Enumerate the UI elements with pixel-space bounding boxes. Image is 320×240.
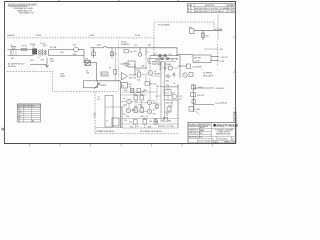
- wire to rectifier: [83, 50, 85, 63]
- svg-text:U1: U1: [129, 64, 131, 66]
- svg-text:A2: A2: [32, 120, 34, 123]
- label T2 drive: [98, 97, 101, 101]
- labels secondary extra: [124, 108, 174, 129]
- wire sense: [194, 31, 222, 40]
- svg-text:CR11: CR11: [196, 109, 200, 111]
- svg-text:ASSEMBLY A1-A3: ASSEMBLY A1-A3: [216, 133, 230, 136]
- svg-text:RV1: RV1: [11, 58, 14, 60]
- diode CR10: [191, 85, 224, 90]
- svg-text:REVISED PER ECO 2211 R4 WAS 1K: REVISED PER ECO 2211 R4 WAS 1K: [195, 10, 225, 13]
- svg-text:P/O A1: P/O A1: [30, 43, 35, 46]
- svg-text:CR8: CR8: [138, 104, 141, 106]
- label sense: [214, 29, 223, 31]
- capacitor C2: [44, 50, 46, 55]
- secondary box frame: [122, 84, 178, 128]
- svg-text:+12.6V: +12.6V: [194, 61, 200, 63]
- svg-text:C11: C11: [134, 45, 137, 47]
- svg-text:REF DESIG PART NO: REF DESIG PART NO: [18, 104, 36, 107]
- wire bus top center: [90, 45, 177, 55]
- svg-text:COM: COM: [220, 61, 225, 63]
- switch S1: [49, 47, 58, 63]
- svg-text:C34: C34: [130, 126, 133, 128]
- parts reference table: [17, 104, 40, 123]
- label P/O A1: [30, 43, 35, 46]
- revision table: [187, 3, 236, 13]
- svg-text:R52: R52: [153, 114, 156, 116]
- transformer T1 primary wires: [134, 48, 146, 56]
- zener VR2: [191, 93, 205, 97]
- resistor R54: [154, 118, 158, 124]
- svg-text:Q7: Q7: [173, 93, 175, 95]
- svg-text:SECONDARY REGULATOR: SECONDARY REGULATOR: [140, 130, 162, 133]
- relay K1 box: [83, 81, 120, 128]
- svg-text:C35: C35: [160, 121, 163, 123]
- capacitor C3: [92, 48, 96, 58]
- resistor R38: [137, 88, 145, 93]
- svg-text:C37: C37: [171, 126, 174, 128]
- svg-text:HEWLETT·PACKARD: HEWLETT·PACKARD: [216, 124, 238, 127]
- svg-text:CR16: CR16: [168, 105, 172, 107]
- svg-text:Q4: Q4: [153, 110, 155, 112]
- svg-text:25UF: 25UF: [166, 77, 170, 79]
- svg-text:C3: C3: [92, 50, 94, 52]
- svg-text:C40: C40: [166, 85, 169, 87]
- notes text block: [8, 4, 38, 14]
- wire L2 bottom bus: [8, 55, 85, 57]
- svg-text:48-440 Hz: 48-440 Hz: [8, 66, 16, 68]
- svg-text:C33: C33: [143, 118, 146, 120]
- svg-text:SCALE: SCALE: [213, 141, 219, 144]
- svg-text:R20: R20: [206, 36, 209, 38]
- resistor R23: [137, 70, 141, 77]
- svg-text:R23: R23: [137, 70, 140, 72]
- svg-text:R50: R50: [126, 116, 129, 118]
- svg-text:+5.2V SEN: +5.2V SEN: [214, 29, 223, 31]
- svg-text:P/O A2: P/O A2: [135, 34, 140, 37]
- capacitor C20: [189, 27, 195, 34]
- svg-text:0071: 0071: [153, 103, 157, 105]
- svg-text:J1: J1: [11, 45, 13, 47]
- resistor R2: [101, 72, 108, 76]
- svg-text:CR8: CR8: [155, 60, 158, 62]
- svg-text:.02: .02: [136, 126, 138, 128]
- capacitor C5: [40, 43, 47, 46]
- svg-text:1: 1: [191, 8, 192, 10]
- right output box U2: [178, 55, 228, 64]
- capacitor C21: [187, 64, 202, 69]
- svg-text:4: 4: [234, 71, 235, 73]
- resistor R3: [109, 48, 117, 81]
- diode CR14: [162, 118, 172, 127]
- relay K2: [145, 82, 157, 86]
- chassis dashed boundary: [7, 71, 119, 92]
- svg-text:U1: U1: [18, 121, 20, 123]
- transistor Q5: [183, 73, 214, 78]
- svg-text:C32: C32: [129, 122, 132, 124]
- label A2 board: [121, 41, 130, 46]
- svg-text:CR12: CR12: [140, 116, 144, 118]
- svg-text:REVISIONS: REVISIONS: [205, 5, 215, 7]
- svg-text:PRIMARY REGULATOR: PRIMARY REGULATOR: [96, 130, 115, 133]
- svg-text:6.8: 6.8: [173, 83, 175, 85]
- svg-text:R44: R44: [166, 81, 169, 83]
- resistor R37: [131, 88, 134, 92]
- svg-text:DRIVER: DRIVER: [154, 73, 161, 75]
- resistor R20: [201, 33, 208, 38]
- svg-text:6-72: 6-72: [227, 11, 230, 13]
- svg-text:T1: T1: [33, 47, 35, 49]
- svg-text:R42: R42: [144, 90, 147, 92]
- resistor R34: [140, 94, 144, 100]
- resistor R33: [134, 94, 138, 100]
- rectifier CR1: [85, 59, 90, 66]
- lamp DS1: [60, 45, 78, 56]
- varistor RV1: [11, 50, 16, 60]
- wire y95: [121, 94, 148, 96]
- svg-text:R25: R25: [176, 55, 179, 57]
- A2 dashed boundary: [157, 85, 179, 106]
- labels drive top: [134, 45, 151, 47]
- svg-text:C18: C18: [137, 80, 140, 82]
- dashed sense line: [217, 44, 219, 66]
- svg-text:R16: R16: [130, 51, 133, 53]
- svg-text:R15 ADJ: R15 ADJ: [100, 84, 107, 87]
- svg-text:C31: C31: [155, 108, 158, 110]
- T1 winding top: [160, 63, 166, 71]
- svg-text:A2: A2: [180, 97, 182, 100]
- svg-text:+160V: +160V: [96, 45, 102, 47]
- labels mid: [124, 85, 172, 129]
- resistor R16: [124, 49, 133, 53]
- diode CR16: [167, 105, 172, 111]
- svg-text:REVISED PER ECO 1234 SHT 2 C5: REVISED PER ECO 1234 SHT 2 C5 WAS .02: [195, 7, 230, 10]
- svg-text:CR9: CR9: [167, 65, 170, 67]
- capacitor C4: [110, 48, 117, 58]
- transistor Q2: [147, 100, 156, 105]
- svg-text:T1: T1: [147, 52, 149, 54]
- svg-text:R26: R26: [148, 63, 151, 65]
- svg-text:U3: U3: [122, 85, 124, 87]
- svg-text:CR15: CR15: [130, 90, 134, 92]
- svg-text:R3: R3: [109, 68, 111, 70]
- diode CR11: [189, 107, 200, 115]
- transistor Q7: [172, 93, 176, 99]
- comparator U3: [122, 83, 133, 89]
- svg-text:C4: C4: [115, 54, 117, 56]
- svg-text:C20: C20: [189, 27, 192, 29]
- wire L1 top bus: [8, 49, 85, 51]
- wire common: [84, 63, 97, 81]
- transistor Q8: [155, 105, 159, 109]
- inverter drive section: [121, 61, 148, 75]
- transformer T3 windings: [30, 50, 43, 62]
- wire right mid: [178, 55, 187, 79]
- connector J1: [11, 45, 16, 56]
- label AC line: [8, 63, 25, 68]
- svg-text:C25: C25: [171, 60, 174, 62]
- wires secondary: [121, 87, 179, 128]
- svg-text:SHEET 1 OF 1: SHEET 1 OF 1: [224, 142, 235, 144]
- small text cluster above title block: [222, 102, 227, 105]
- resistor R36: [140, 106, 144, 112]
- label P/O A2 vertical: [180, 96, 184, 100]
- diode CR9: [162, 65, 178, 70]
- label secondary regulator: [140, 130, 162, 133]
- transistor Q6: [148, 71, 161, 76]
- capacitor C22: [166, 72, 175, 79]
- svg-text:CR3: CR3: [41, 60, 44, 62]
- svg-text:CR7: CR7: [153, 54, 156, 56]
- wire aux out: [204, 49, 224, 51]
- svg-text:P/O A1: P/O A1: [89, 34, 94, 37]
- inductor L2: [164, 90, 171, 96]
- svg-text:R22 4.7K: R22 4.7K: [129, 78, 137, 80]
- capacitor C33: [143, 118, 147, 124]
- svg-text:U2 COMP: U2 COMP: [129, 75, 138, 77]
- wire output low: [194, 103, 223, 105]
- svg-text:R48: R48: [168, 121, 171, 123]
- capacitor C30: [93, 114, 96, 118]
- svg-text:REGULATOR: REGULATOR: [203, 75, 214, 78]
- resistor R35: [134, 106, 138, 112]
- line filter L1 choke: [33, 44, 37, 54]
- svg-text:CR6: CR6: [141, 66, 144, 68]
- svg-text:+5V 3A OUT: +5V 3A OUT: [215, 87, 225, 90]
- wire T1 taps right: [165, 64, 179, 112]
- capacitor C32: [129, 120, 137, 125]
- ground secondary: [155, 118, 158, 122]
- svg-text:R2 1M: R2 1M: [102, 74, 108, 76]
- svg-text:INVERTER: INVERTER: [121, 44, 130, 46]
- svg-text:R19: R19: [148, 45, 151, 47]
- label 230V: [60, 74, 66, 78]
- svg-text:R59 10: R59 10: [158, 126, 164, 128]
- chassis dashed top: [7, 34, 154, 38]
- svg-text:OPER: OPER: [60, 76, 66, 78]
- svg-text:1854: 1854: [123, 105, 127, 107]
- svg-text:+12V OUT: +12V OUT: [220, 57, 228, 59]
- resistor R1: [86, 71, 90, 75]
- svg-text:L2: L2: [165, 93, 167, 95]
- svg-text:P/O A1: P/O A1: [36, 34, 41, 37]
- svg-text:INDUCTANCE, mH: INDUCTANCE, mH: [19, 11, 34, 14]
- transistor Q3: [123, 108, 131, 115]
- svg-text:DIMENSIONS IN INCHES: DIMENSIONS IN INCHES: [189, 126, 210, 128]
- svg-text:05212-60952: 05212-60952: [218, 138, 228, 140]
- svg-text:1500: 1500: [124, 65, 128, 67]
- svg-text:TOL: TOL: [200, 133, 203, 135]
- svg-text:C24: C24: [168, 54, 171, 56]
- dashed regulator boundary: [95, 92, 179, 134]
- svg-text:P/O A3 BOARD: P/O A3 BOARD: [158, 24, 171, 27]
- board edge line: [118, 40, 120, 91]
- wire A3 edge: [217, 14, 219, 40]
- svg-text:DO NOT SCALE: DO NOT SCALE: [198, 140, 211, 143]
- svg-text:VR1 REF: VR1 REF: [194, 58, 201, 60]
- svg-text:C21 2000UF: C21 2000UF: [192, 67, 202, 69]
- driver transformer T2: [95, 96, 125, 128]
- resistor R30: [192, 100, 195, 104]
- svg-text:K2 COIL: K2 COIL: [150, 84, 157, 86]
- svg-text:Q3: Q3: [123, 114, 125, 116]
- ground chassis: [30, 58, 49, 68]
- microfilm margin strip: [233, 112, 236, 122]
- svg-text:R46 220: R46 220: [166, 103, 172, 105]
- svg-text:.01: .01: [146, 116, 148, 118]
- transformer T1 cluster: [147, 52, 180, 66]
- wire T1 taps left: [152, 64, 161, 104]
- svg-text:180: 180: [149, 121, 152, 123]
- wires drive: [124, 56, 161, 101]
- svg-text:NE-2: NE-2: [73, 54, 77, 56]
- labels right of T1: [166, 81, 175, 86]
- svg-text:2: 2: [191, 11, 192, 13]
- title block: [188, 122, 240, 143]
- transformer T1 core: [161, 62, 165, 120]
- company logo: [213, 124, 216, 127]
- svg-text:R58: R58: [148, 126, 151, 128]
- svg-text:R39: R39: [132, 109, 135, 111]
- svg-text:3-71: 3-71: [227, 8, 230, 10]
- border frame: [1, 0, 236, 147]
- svg-text:Q5 SERIES: Q5 SERIES: [203, 73, 213, 75]
- label primary regulator: [96, 130, 115, 133]
- svg-text:VR2 6.2V: VR2 6.2V: [197, 95, 205, 97]
- svg-text:39: 39: [176, 59, 178, 61]
- svg-text:T2: T2: [106, 121, 108, 123]
- svg-text:Q1: Q1: [123, 98, 125, 100]
- svg-text:CR1: CR1: [85, 59, 88, 61]
- dashed box A3: [154, 22, 214, 56]
- op-amp U2: [121, 73, 138, 81]
- transistor Q1: [123, 98, 131, 107]
- svg-text:CHASSIS: CHASSIS: [7, 34, 15, 37]
- fuse F1: [22, 45, 28, 51]
- transistor Q4: [147, 109, 155, 115]
- svg-text:DS1: DS1: [73, 45, 76, 47]
- svg-text:R17: R17: [134, 51, 137, 53]
- potentiometer R15 arrow: [94, 83, 106, 89]
- svg-text:C5 .01: C5 .01: [40, 43, 45, 45]
- svg-text:S1 LINE: S1 LINE: [50, 47, 57, 49]
- secondary rail wires: [193, 84, 195, 112]
- diode CR3: [41, 54, 47, 62]
